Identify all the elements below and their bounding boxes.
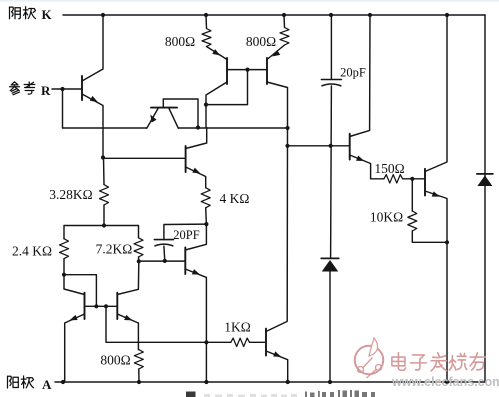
node Q6 emitter 1K junction xyxy=(204,340,208,344)
node bottom rail x=139 xyxy=(137,380,141,384)
svg-text:4 KΩ: 4 KΩ xyxy=(220,191,250,206)
svg-text:K: K xyxy=(42,7,53,22)
label ref 考 xyxy=(24,82,35,94)
wire R input to base xyxy=(52,88,81,90)
transistor Q11 collector xyxy=(117,289,138,294)
transistor Q7 emitter xyxy=(350,155,371,179)
transistor Q8 emitter xyxy=(425,191,447,382)
transistor Q5 base loop xyxy=(163,99,198,128)
node top rail x=370 xyxy=(368,13,372,17)
watermark logo trace1 xyxy=(363,358,373,368)
watermark char 发 xyxy=(431,353,446,371)
transistor Q1 bar xyxy=(81,76,83,100)
label anode 阳 xyxy=(8,376,19,388)
transistor Q6 bar xyxy=(184,248,186,275)
svg-text:www.elecfans.com: www.elecfans.com xyxy=(391,375,499,389)
resistor R6 4K xyxy=(201,188,210,208)
svg-text:A: A xyxy=(42,377,52,392)
wire mirror base down xyxy=(206,70,248,105)
transistor Q5 bar xyxy=(151,107,177,109)
wire R2 to Q3 emitter xyxy=(267,45,285,60)
watermark logo node2 xyxy=(376,365,382,371)
wire R9 to Q8 base xyxy=(403,178,425,180)
wire Q11 collector up xyxy=(137,261,139,289)
transistor Q6 collector xyxy=(185,224,206,250)
wire divider right xyxy=(104,226,139,238)
transistor Q4 emitter arrow xyxy=(192,168,201,176)
svg-text:800Ω: 800Ω xyxy=(246,34,276,49)
wire C2 bottom xyxy=(163,246,166,261)
wire node to C2 xyxy=(164,224,207,240)
caption faint marks xyxy=(204,394,297,397)
wire R5 bottom xyxy=(138,257,140,261)
transistor Q2 base wire xyxy=(227,69,267,71)
transistor Q3 emitter arrow xyxy=(271,50,280,59)
wire Q6 emitter to rail xyxy=(205,342,207,382)
wire right edge xyxy=(484,15,486,382)
watermark logo node1 xyxy=(358,367,364,373)
node R input xyxy=(60,87,64,91)
transistor Q3 collector xyxy=(267,82,288,128)
node diode-connect Q2 xyxy=(204,103,208,107)
watermark logo leaf xyxy=(369,338,378,356)
wire Q6 base xyxy=(139,260,185,262)
resistor R1 800ohm lead xyxy=(205,15,208,29)
label anode 极 xyxy=(21,376,33,388)
svg-text:800Ω: 800Ω xyxy=(165,34,195,49)
wire base link xyxy=(85,305,118,307)
wire 1K to Q9 base xyxy=(250,341,266,343)
resistor R2 800ohm xyxy=(280,28,289,46)
wire R1 to Q2 emitter xyxy=(207,47,228,60)
svg-text:3.28KΩ: 3.28KΩ xyxy=(49,187,92,202)
svg-text:2.4 KΩ: 2.4 KΩ xyxy=(12,244,52,259)
wire R4 bottom xyxy=(63,259,65,275)
wire divider left xyxy=(64,226,104,239)
transistor Q5 left arrow xyxy=(148,113,157,122)
node top rail x=103 xyxy=(101,13,105,17)
wire R node down xyxy=(62,89,64,128)
node 10K tap xyxy=(410,177,414,181)
node Q1 emitter / base Q4 xyxy=(101,155,105,159)
resistor R3 3.28K xyxy=(100,185,109,205)
transistor Q2 bar xyxy=(226,58,228,84)
transistor Q2 collector xyxy=(206,82,227,128)
wire D1 to rail xyxy=(329,270,331,382)
label cathode 极 xyxy=(23,7,35,19)
wire Q5 to Q3 collector line xyxy=(178,127,287,129)
node bottom rail x=287.7 xyxy=(286,380,290,384)
wire cap C1 top xyxy=(330,15,332,80)
svg-text:1KΩ: 1KΩ xyxy=(224,320,251,335)
caption dark marks xyxy=(305,390,375,397)
node top rail x=447 xyxy=(445,13,449,17)
watermark logo circle xyxy=(355,346,383,374)
wire Q1 emitter to R3 xyxy=(103,158,106,185)
transistor Q4 bar xyxy=(185,146,187,172)
resistor R4 2.4K xyxy=(60,239,69,259)
transistor Q2 emitter arrow xyxy=(212,49,221,58)
transistor Q7 emitter arrow xyxy=(356,156,365,164)
transistor Q11 emitter arrow xyxy=(124,315,133,323)
label cathode 阴 xyxy=(10,7,21,19)
transistor Q4 collector xyxy=(186,128,207,149)
node top rail x=331 xyxy=(329,13,333,17)
transistor Q6 emitter xyxy=(185,269,206,342)
wire R node to Q5 emitter xyxy=(63,127,147,129)
capacitor C1 20pF xyxy=(321,79,341,81)
transistor Q10 emitter xyxy=(65,314,85,382)
resistor R8 1K xyxy=(231,338,250,346)
transistor Q3 bar xyxy=(266,58,268,84)
transistor Q11 bar xyxy=(116,293,118,319)
node R4 bottom xyxy=(62,273,66,277)
node divider xyxy=(102,223,106,227)
wire top rail K xyxy=(63,14,485,16)
transistor Q9 emitter xyxy=(266,351,288,382)
transistor Q9 bar xyxy=(265,329,267,356)
wire R3 bottom xyxy=(103,205,105,226)
wire Q4 base xyxy=(103,157,185,159)
node C2 bottom xyxy=(163,259,167,263)
watermark char 友 xyxy=(470,353,485,370)
resistor R10 10K lead xyxy=(411,179,413,211)
node bottom rail x=330 xyxy=(328,380,332,384)
transistor Q10 emitter arrow xyxy=(68,315,77,323)
node C1 line base junction xyxy=(329,144,333,148)
wire R10 bottom xyxy=(412,231,447,242)
node base link a xyxy=(94,304,98,308)
transistor Q6 emitter arrow xyxy=(192,269,201,277)
svg-text:7.2KΩ: 7.2KΩ xyxy=(96,242,133,257)
transistor Q9 collector xyxy=(266,128,288,332)
svg-text:10KΩ: 10KΩ xyxy=(370,210,403,225)
wire base link down to 1K wire xyxy=(106,306,231,342)
node Q8 emitter 10K xyxy=(445,240,449,244)
resistor R10 10K xyxy=(408,211,417,231)
node R6 bottom xyxy=(204,222,208,226)
svg-text:800Ω: 800Ω xyxy=(100,353,130,368)
resistor R9 150ohm xyxy=(384,175,403,183)
transistor Q10 bar xyxy=(84,293,86,319)
transistor Q9 emitter arrow xyxy=(273,351,282,359)
wire base Q7 xyxy=(288,145,349,147)
transistor Q8 emitter arrow xyxy=(432,191,441,199)
svg-text:150Ω: 150Ω xyxy=(374,161,404,176)
node mirror base xyxy=(245,68,249,72)
node top rail x=206 xyxy=(204,13,208,17)
transistor Q7 bar xyxy=(349,134,351,160)
label ref 参 xyxy=(10,82,20,95)
transistor Q5 left leg xyxy=(147,108,159,129)
node base Q7 start xyxy=(285,144,289,148)
node top rail x=284 xyxy=(282,13,286,17)
node bottom rail x=206.4 xyxy=(204,380,208,384)
node bottom rail x=63 xyxy=(61,380,65,384)
node bottom rail x=447 xyxy=(445,380,449,384)
diode D2 xyxy=(477,173,493,175)
watermark char 电 xyxy=(392,353,406,371)
resistor R2 800ohm lead xyxy=(283,15,286,28)
wire R4node right xyxy=(64,275,96,306)
svg-text:R: R xyxy=(41,83,51,98)
transistor Q1 emitter arrow xyxy=(90,96,99,105)
transistor Q1 emitter xyxy=(82,94,103,158)
resistor R5 7.2K xyxy=(134,238,143,257)
transistor Q10 collector xyxy=(64,275,85,295)
node R5 bottom xyxy=(137,259,141,263)
transistor Q8 collector xyxy=(425,15,447,172)
transistor Q4 emitter xyxy=(186,167,206,188)
wire C1 bottom xyxy=(330,86,333,258)
resistor R7 800ohm bottom xyxy=(134,350,143,369)
watermark char 烧 xyxy=(449,353,466,370)
node base link b xyxy=(104,304,108,308)
svg-text:20PF: 20PF xyxy=(173,228,199,242)
wire R7 bottom xyxy=(138,369,140,382)
resistor R1 800ohm xyxy=(202,29,211,47)
caption block 图 xyxy=(186,392,196,397)
wire bottom rail A xyxy=(55,381,485,383)
node Q5 box junction xyxy=(196,125,200,129)
transistor Q11 emitter xyxy=(117,314,138,350)
svg-text:20pF: 20pF xyxy=(340,66,366,80)
node long vertical top xyxy=(285,126,289,130)
wire Q7 to R9 xyxy=(371,178,384,180)
wire R6 bottom xyxy=(205,208,208,224)
diode D1 xyxy=(321,257,339,259)
watermark logo trace2 xyxy=(367,370,377,379)
transistor Q1 collector xyxy=(82,15,103,81)
transistor Q8 bar xyxy=(424,169,426,196)
capacitor C2 20PF xyxy=(154,239,173,241)
transistor Q7 collector xyxy=(350,15,370,137)
watermark char 子 xyxy=(410,355,426,370)
transistor Q5 right leg xyxy=(169,108,179,129)
